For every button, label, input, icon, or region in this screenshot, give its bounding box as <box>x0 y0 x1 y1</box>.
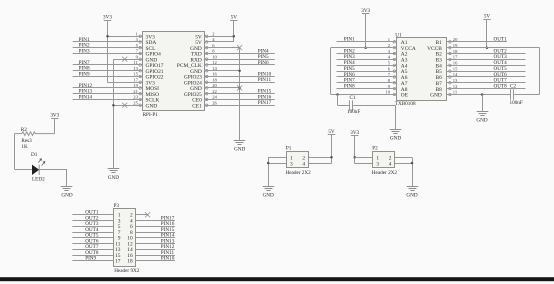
svg-text:26: 26 <box>212 100 217 105</box>
wire net PIN17 <box>205 105 275 107</box>
wire P1 pin1 <box>268 157 286 159</box>
wire loop to C2 <box>514 94 539 96</box>
svg-text:TXB0108: TXB0108 <box>395 101 416 107</box>
wire net PIN7 to A7 <box>337 82 398 84</box>
wire VCCB loop vertical <box>539 48 541 95</box>
wire net PIN2 to A2 <box>337 53 398 55</box>
svg-text:5V: 5V <box>328 129 335 135</box>
header P1 2x2 body <box>287 152 309 168</box>
wire 3V3 vertical to pins 1/17 <box>107 21 109 83</box>
wire net PIN6 <box>205 64 275 66</box>
svg-text:3: 3 <box>376 161 379 167</box>
svg-text:P3: P3 <box>114 203 120 209</box>
junction pin20 GND <box>238 87 241 90</box>
no-ERC pin6 <box>237 45 242 50</box>
svg-text:3V3: 3V3 <box>103 14 112 20</box>
header P2 2x2 body <box>373 152 395 168</box>
svg-text:GND: GND <box>146 103 158 109</box>
wire pin9 GND <box>113 59 142 61</box>
junction P2 pin1/3V3 <box>353 156 356 159</box>
wire P2 pin1 <box>355 157 373 159</box>
svg-text:Header 9X2: Header 9X2 <box>114 268 140 274</box>
wire net PIN13 <box>73 93 143 95</box>
svg-text:23: 23 <box>133 95 138 100</box>
svg-text:3: 3 <box>290 161 293 167</box>
no-ERC P3 pin2 <box>145 212 150 217</box>
svg-text:17: 17 <box>115 259 121 265</box>
wire net OUT7 <box>447 82 526 84</box>
svg-text:GND: GND <box>430 93 442 99</box>
wire net OUT2 (P3) <box>72 220 113 222</box>
wire net PIN7 <box>73 64 143 66</box>
wire P1 5V vertical <box>331 135 333 164</box>
junction pin2/5V <box>233 35 236 38</box>
svg-text:18: 18 <box>127 259 133 265</box>
wire net PIN10 <box>205 76 275 78</box>
svg-text:16: 16 <box>212 72 217 77</box>
capacitor C1 100nF <box>347 95 360 115</box>
wire 3V3 to VCCA <box>365 14 367 48</box>
junction P1 pin2/5V <box>330 156 333 159</box>
svg-text:PIN3: PIN3 <box>79 48 90 54</box>
wire net PIN14 <box>73 99 143 101</box>
junction GND/C2 <box>481 93 484 96</box>
wire net OUT7 (P3) <box>72 249 113 251</box>
wire P1 pin2 <box>308 157 331 159</box>
svg-text:RPI-P1: RPI-P1 <box>143 112 159 118</box>
svg-text:P1: P1 <box>286 146 292 152</box>
wire net PIN16 <box>205 99 275 101</box>
wire C2 to GND pin <box>482 94 511 96</box>
ground (P2) <box>406 187 418 199</box>
svg-text:U1: U1 <box>395 33 402 39</box>
wire OE <box>331 94 397 96</box>
wire 5V to VCCB <box>486 20 488 48</box>
svg-text:18: 18 <box>212 77 217 82</box>
IC U1 TXB0108 body <box>397 38 447 101</box>
wire gnd drop (U1) <box>482 95 484 112</box>
wire net PIN5 to A5 <box>337 71 398 73</box>
junction OE/C1 <box>336 93 339 96</box>
svg-text:GND: GND <box>108 175 119 181</box>
svg-text:3V3: 3V3 <box>350 130 359 136</box>
no-ERC pin25 <box>122 103 127 108</box>
sheet bottom border <box>0 277 554 281</box>
ground (RPI left) <box>108 169 120 181</box>
power 5V (RPI) <box>230 15 238 21</box>
svg-text:11: 11 <box>453 90 458 95</box>
wire P1 pin3 <box>268 163 286 165</box>
wire LED anode <box>15 169 32 171</box>
wire net PIN1 <box>73 41 143 43</box>
svg-text:OUT8: OUT8 <box>494 83 508 89</box>
wire net PIN10 (P3) <box>136 260 175 262</box>
svg-text:OUT1: OUT1 <box>494 37 508 43</box>
wire net OUT2 <box>447 53 526 55</box>
svg-text:PIN14: PIN14 <box>79 94 93 100</box>
wire net PIN9 (P3) <box>72 260 113 262</box>
wire pin20 GND <box>205 87 240 89</box>
svg-text:16: 16 <box>453 60 458 65</box>
svg-text:PIN6: PIN6 <box>258 60 269 66</box>
svg-text:PIN17: PIN17 <box>258 100 272 106</box>
svg-text:24: 24 <box>212 95 217 100</box>
svg-text:3V3: 3V3 <box>361 8 370 14</box>
wire net PIN15 <box>205 93 275 95</box>
wire C1 to gnd drop <box>353 105 395 107</box>
wire VCCB <box>447 47 540 49</box>
wire net PIN13 (P3) <box>136 243 175 245</box>
resistor R2 Res3 1K <box>15 127 55 150</box>
ground (U1) <box>476 112 488 124</box>
svg-text:P2: P2 <box>372 146 378 152</box>
wire net OUT8 <box>447 88 526 90</box>
wire net OUT5 <box>447 71 526 73</box>
svg-text:100nF: 100nF <box>510 100 523 106</box>
wire net PIN8 <box>73 70 143 72</box>
svg-text:PIN10: PIN10 <box>161 256 175 262</box>
wire net PIN16 (P3) <box>136 226 175 228</box>
wire net PIN14 (P3) <box>136 237 175 239</box>
svg-text:5V: 5V <box>484 14 491 20</box>
ground (LED) <box>61 187 73 199</box>
svg-text:100nF: 100nF <box>347 109 360 115</box>
wire net OUT6 <box>447 76 526 78</box>
wire net OUT4 <box>447 65 526 67</box>
wire P2 pin2 <box>395 157 412 159</box>
svg-text:PIN9: PIN9 <box>79 71 90 77</box>
wire net PIN5 <box>205 59 275 61</box>
wire 5V vertical <box>233 21 235 42</box>
junction P1 pin3 <box>267 162 270 165</box>
svg-text:Header 2X2: Header 2X2 <box>286 170 312 176</box>
no-ERC pin20 <box>237 85 242 90</box>
svg-text:PIN8: PIN8 <box>344 83 355 89</box>
wire net PIN6 to A6 <box>337 76 398 78</box>
wire net OUT4 (P3) <box>72 232 113 234</box>
ground (P1) <box>263 187 275 199</box>
wire P2 pin4 <box>395 163 412 165</box>
svg-text:GND: GND <box>263 193 274 199</box>
wire gnd drop (C1) <box>395 106 397 130</box>
wire net PIN8 to A8 <box>337 88 398 90</box>
svg-text:1K: 1K <box>21 144 28 150</box>
wire OE junction down to C1 <box>337 95 339 106</box>
svg-text:GND: GND <box>61 192 72 198</box>
power 3V3 (P2) <box>350 130 359 136</box>
stub P3 pin2 <box>136 214 148 216</box>
wire GND vertical (RPI right) <box>239 48 241 141</box>
svg-text:GND: GND <box>234 146 245 152</box>
svg-text:CE1: CE1 <box>192 103 202 109</box>
wire net PIN11 (P3) <box>136 255 175 257</box>
wire pin2 5V <box>205 36 234 38</box>
wire pin14 GND <box>205 70 240 72</box>
header P3 9x2 body <box>114 209 136 267</box>
wire R2 to LED <box>14 134 16 170</box>
wire net PIN17 (P3) <box>136 220 175 222</box>
wire 3V3 to R2 <box>54 119 56 134</box>
wire pin6 GND <box>205 47 240 49</box>
power 3V3 (U1) <box>361 8 370 14</box>
power 5V (U1) <box>483 14 491 20</box>
wire net PIN4 to A4 <box>337 65 398 67</box>
wire LED cathode <box>39 169 67 171</box>
svg-text:LED2: LED2 <box>32 177 45 183</box>
power 3V3 (R2) <box>50 112 59 118</box>
wire pin4 5V <box>205 41 234 43</box>
svg-text:10: 10 <box>212 54 217 59</box>
svg-text:25: 25 <box>133 100 138 105</box>
no-ERC pin9 <box>122 57 127 62</box>
junction pin14 GND <box>238 69 241 72</box>
wire net PIN12 (P3) <box>136 249 175 251</box>
svg-text:10: 10 <box>385 90 390 95</box>
svg-text:PIN11: PIN11 <box>258 77 272 83</box>
svg-text:D1: D1 <box>31 152 38 158</box>
wire P2 pin3 <box>355 163 373 165</box>
LED D1 LED2 <box>31 152 45 183</box>
wire net PIN2 <box>73 47 143 49</box>
wire P2 3V3 vertical <box>354 136 356 164</box>
svg-text:17: 17 <box>453 55 458 60</box>
wire to gnd (LED) <box>66 170 68 187</box>
wire net OUT8 (P3) <box>72 255 113 257</box>
svg-text:GND: GND <box>406 192 417 198</box>
wire VCCA-OE vertical <box>330 48 332 95</box>
wire GND vertical (RPI left) <box>113 60 115 169</box>
wire net OUT6 (P3) <box>72 243 113 245</box>
svg-text:15: 15 <box>453 66 458 71</box>
wire net OUT3 (P3) <box>72 226 113 228</box>
wire net OUT3 <box>447 59 526 61</box>
wire pin25 GND <box>113 105 142 107</box>
wire net PIN12 <box>73 87 143 89</box>
wire net OUT5 (P3) <box>72 237 113 239</box>
svg-text:5V: 5V <box>231 15 238 21</box>
wire to pin17 3V3 <box>108 82 143 84</box>
svg-text:C1: C1 <box>350 95 356 101</box>
wire GND pin 11 <box>447 94 483 96</box>
power 5V (P1) <box>328 129 336 135</box>
wire VCCA <box>331 47 397 49</box>
wire net OUT1 (B1) <box>447 41 508 43</box>
junction GND pin25 <box>112 104 115 107</box>
connector RPI-P1 body <box>143 32 205 111</box>
wire net OUT1 (P3) <box>72 214 113 216</box>
svg-text:PIN1: PIN1 <box>344 37 355 43</box>
svg-text:OE: OE <box>401 93 409 99</box>
power 3V3 (RPI) <box>103 14 112 20</box>
capacitor C2 100nF <box>510 84 523 107</box>
wire net PIN9 <box>73 76 143 78</box>
wire P1 gnd vertical <box>268 158 270 187</box>
wire P1 pin4 <box>308 163 331 165</box>
wire net PIN1 to A1 <box>337 41 398 43</box>
svg-text:4: 4 <box>389 161 392 167</box>
wire net PIN3 <box>73 53 143 55</box>
junction pin1/3V3 <box>106 35 109 38</box>
junction P2 pin4 <box>411 162 414 165</box>
ground (RPI right) <box>234 141 246 153</box>
svg-text:17: 17 <box>133 77 138 82</box>
junction VCCA/3V3 <box>364 46 367 49</box>
wire net PIN4 <box>205 53 275 55</box>
svg-text:GND: GND <box>476 118 487 124</box>
wire net PIN15 (P3) <box>136 232 175 234</box>
wire net PIN11 <box>205 82 275 84</box>
wire net PIN3 to A3 <box>337 59 398 61</box>
svg-text:Header 2X2: Header 2X2 <box>372 170 398 176</box>
svg-text:GND: GND <box>390 135 401 141</box>
svg-text:PIN9: PIN9 <box>85 256 96 262</box>
wire P2 gnd vertical <box>412 158 414 187</box>
wire to pin1 3V3 <box>108 36 143 38</box>
ground (C1) <box>390 130 402 142</box>
wire to C1 <box>338 105 351 107</box>
svg-text:15: 15 <box>133 72 138 77</box>
junction VCCB/5V <box>486 46 489 49</box>
svg-text:4: 4 <box>302 161 305 167</box>
svg-text:R2: R2 <box>21 127 27 133</box>
svg-text:3V3: 3V3 <box>50 112 59 118</box>
